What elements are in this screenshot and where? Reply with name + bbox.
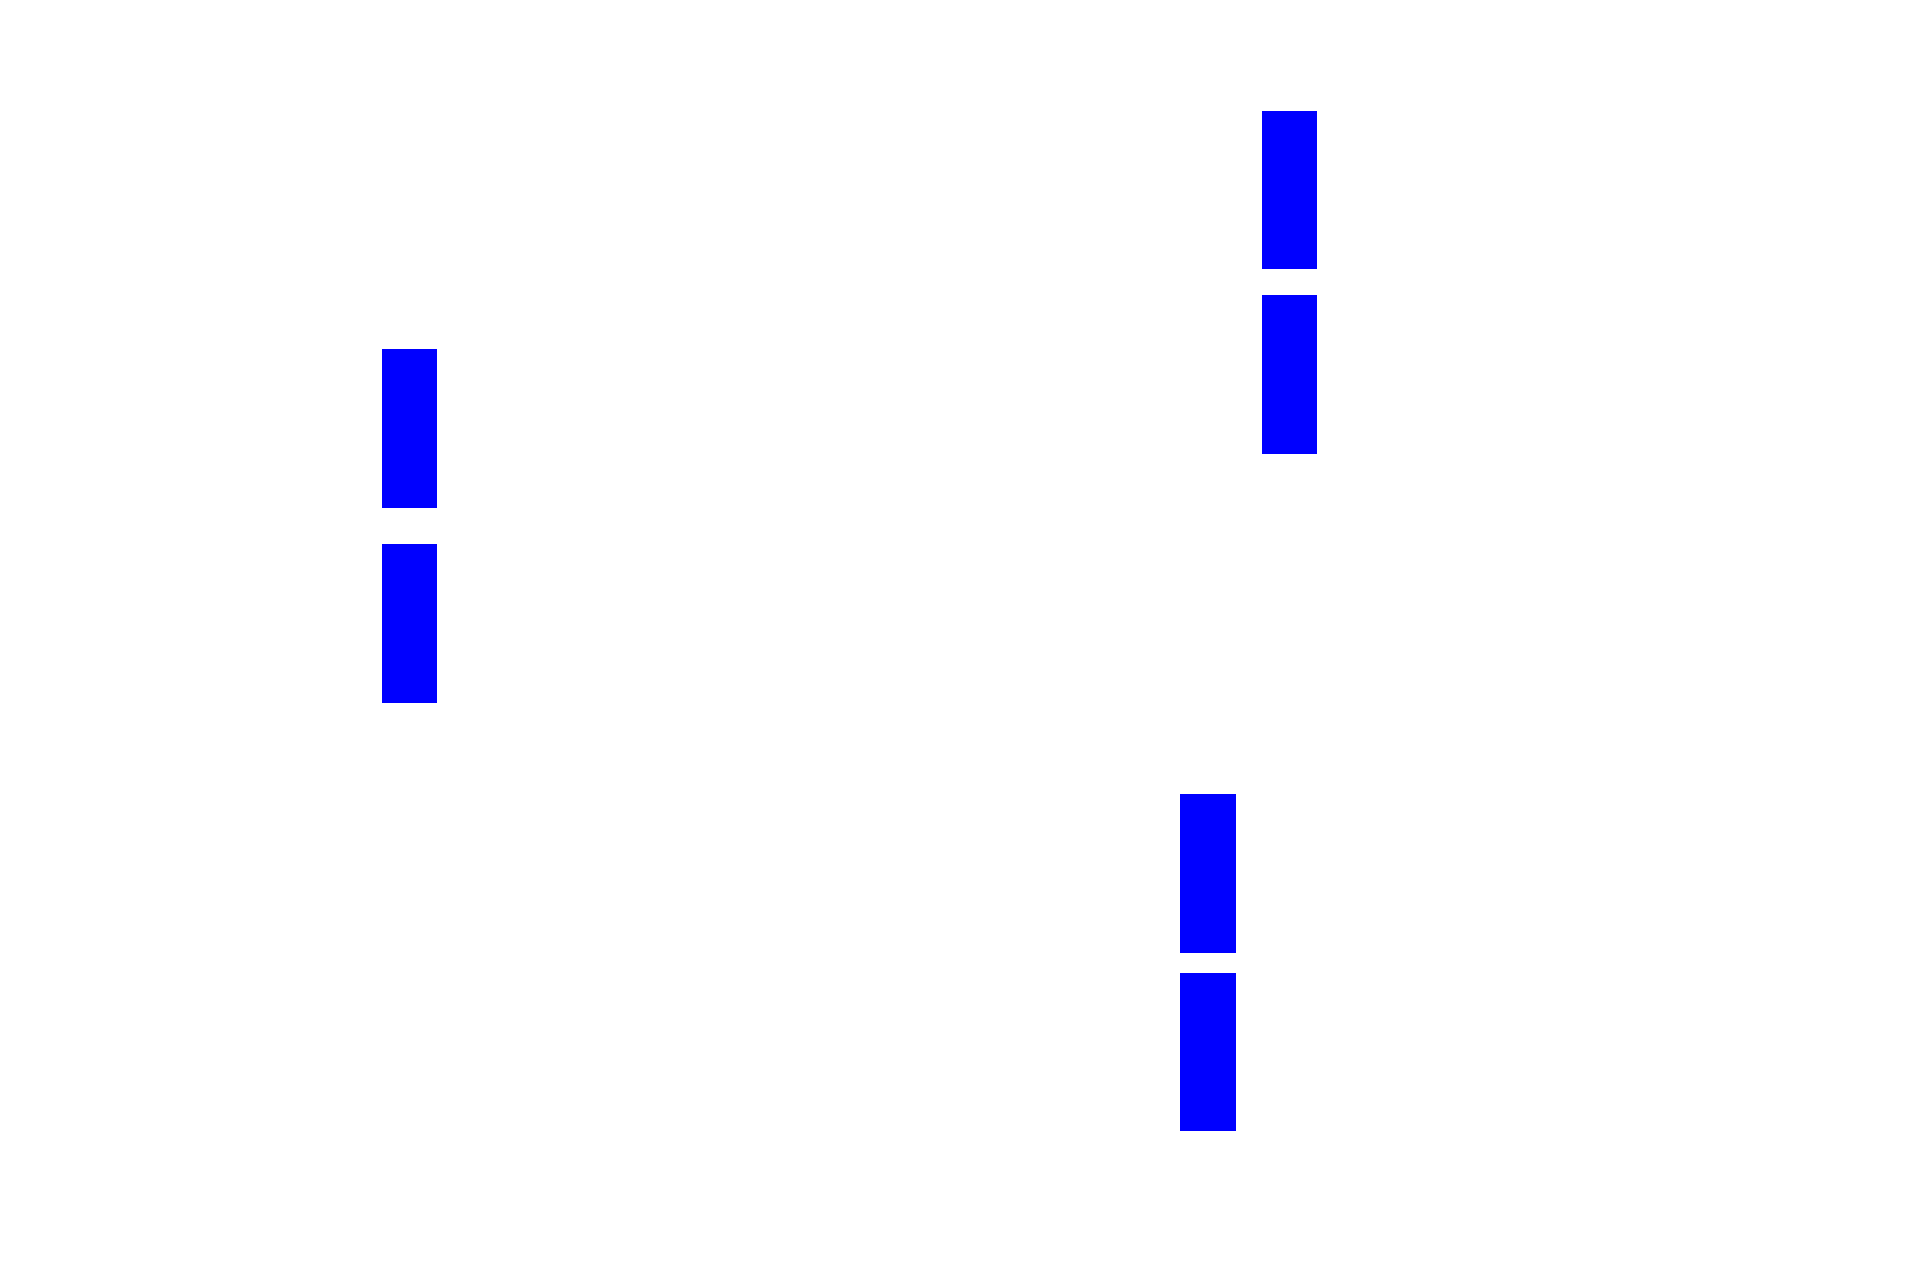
blue bar 5 (bottom pair, top) [1180, 794, 1236, 953]
blue bar 1 (left pair, top) [382, 349, 437, 508]
blue bar 6 (bottom pair, bottom) [1180, 973, 1236, 1131]
blue bar 2 (left pair, bottom) [382, 544, 437, 703]
blue bar 3 (right pair, top) [1262, 111, 1317, 269]
blue bar 4 (right pair, bottom) [1262, 295, 1317, 454]
